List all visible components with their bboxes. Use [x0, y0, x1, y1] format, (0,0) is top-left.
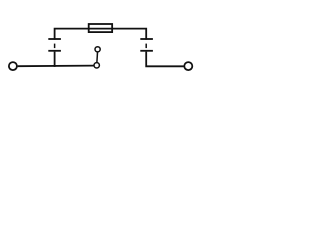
disconnect link right top bar: [140, 38, 153, 40]
disconnect link left dash: [54, 44, 56, 49]
wire left disconnect lower lead: [54, 52, 56, 67]
disconnect link left top bar: [48, 38, 61, 40]
fuse F1 body: [89, 24, 112, 32]
test tap upper circle: [95, 47, 100, 52]
wire top loop: [55, 29, 147, 40]
terminal right: [184, 62, 192, 70]
wire right disconnect lower lead: [146, 52, 183, 67]
terminal left: [9, 62, 17, 70]
wire bottom-left: [18, 65, 94, 68]
disconnect link left bottom bar: [48, 50, 61, 52]
test tap connector: [96, 52, 99, 62]
test tap lower circle: [94, 63, 99, 68]
disconnect link right dash: [145, 44, 147, 49]
disconnect link right bottom bar: [140, 50, 153, 52]
